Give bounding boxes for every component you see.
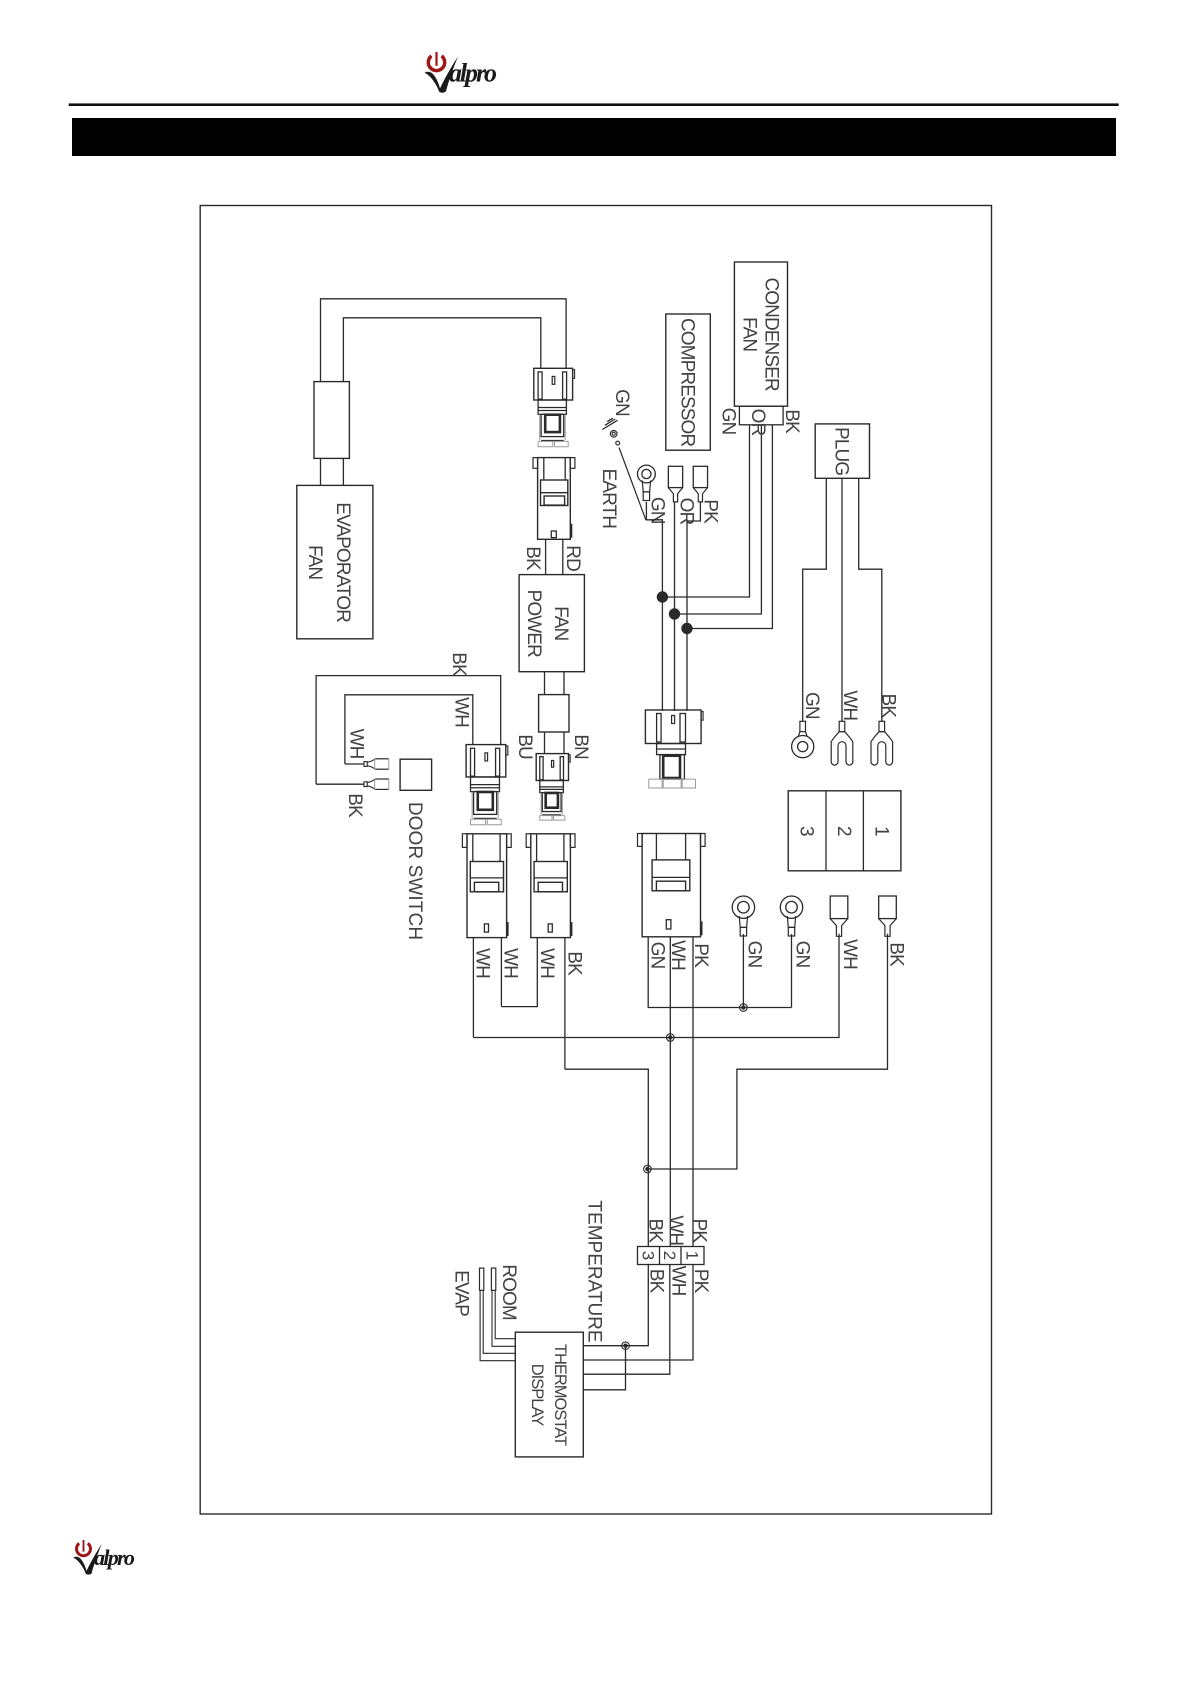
label PK (X4) [690,943,711,968]
label WH (door spade) [345,729,366,759]
label GN (compressor) [647,497,668,524]
condenser fan flange [739,406,783,425]
evaporator fan box [297,485,373,638]
label BK (X2) [564,951,585,976]
svg-text:1: 1 [683,1251,702,1260]
wire fan power out [545,672,565,695]
label RD (fan power in) [562,545,583,571]
svg-text:PK: PK [689,1219,710,1244]
svg-text:EVAP: EVAP [450,1270,471,1316]
connector X4 receptacle 3pin [638,834,706,937]
wire X3 WH right (U-link) [500,938,502,1007]
wire BU [544,732,546,754]
label GN (ring a) [743,941,764,968]
svg-text:BK: BK [448,652,469,677]
label BK (spade a) [886,942,907,967]
terminal block 123 [788,791,901,871]
svg-text:GN: GN [743,941,764,968]
label GN (ring b) [791,941,812,968]
wire BK to condenser [687,425,772,629]
label EVAP [450,1270,471,1316]
terminal BK spade (door switch) [364,779,389,789]
wire EVAP pair [480,1290,515,1360]
terminal ring GN-a [732,896,754,936]
fan power box [519,575,584,672]
wire X4 WH pin [669,937,671,1247]
svg-text:EARTH: EARTH [598,469,619,529]
svg-text:WH: WH [450,697,471,727]
terminal spade PK (compressor) [693,466,707,502]
terminal strip 321 [638,1247,705,1265]
node GN junction [657,592,667,602]
svg-text:WH: WH [665,1215,686,1245]
label WH (door loop) [450,697,471,727]
svg-text:WH: WH [500,948,521,978]
logo Valpro top [425,51,498,92]
terminal spade BK-a [879,896,897,936]
label BK (strip bottom) [645,1269,666,1294]
terminal ring GN (plug) [792,721,814,757]
svg-text:3: 3 [639,1251,658,1260]
svg-text:DOOR SWITCH: DOOR SWITCH [404,802,425,940]
wire ROOM pair [492,1290,515,1346]
label BU [514,734,535,759]
wire BN [563,732,565,754]
svg-text:WH: WH [536,948,557,978]
label WH (X3 right) [500,948,521,978]
compressor box [666,314,711,450]
node WH junction [667,1034,675,1042]
svg-text:OR: OR [747,409,768,436]
terminal fork BK (plug) [871,721,893,765]
svg-text:EVAPORATORFAN: EVAPORATORFAN [304,502,353,622]
wire compressor GN [646,502,662,711]
door switch box [400,759,432,790]
label GN (X4) [646,942,667,969]
sensor probe ROOM [491,1268,495,1290]
diagram frame [200,206,991,1515]
svg-text:BK: BK [877,694,898,719]
connector X3 plug (door circuit) [466,745,508,825]
label BK (door loop) [448,652,469,677]
svg-text:2: 2 [660,1251,679,1260]
wire GN to condenser [662,425,749,597]
wire OR to condenser [675,425,762,614]
wire X2 BK pin [564,938,566,1070]
svg-text:GN: GN [611,389,632,416]
wire X2 WH pin [501,938,537,1007]
condenser fan box [734,262,787,406]
svg-text:CONDENSERFAN: CONDENSERFAN [738,277,781,390]
cable sleeve fan power [539,695,569,732]
wire spade BK-a down [647,934,887,1169]
label OR (condenser) [747,409,768,436]
label WH (X2) [536,948,557,978]
node OR junction [669,609,679,619]
label WH (X3 left) [472,948,493,978]
label WH (strip top) [665,1215,686,1245]
plug box [815,424,869,478]
svg-text:3: 3 [795,826,816,836]
label PK (compressor) [699,499,720,524]
connector X4 plug 3pin [645,710,703,788]
label GN (earth) [611,389,632,416]
svg-text:COMPRESSOR: COMPRESSOR [676,318,697,446]
wire compressor PK [687,502,700,711]
connector X1 plug (evap fan) [534,368,575,446]
wire door switch WH loop [345,695,473,764]
node GN ring junction [740,1004,748,1012]
label GN (plug) [801,692,822,719]
wire plug BK [859,478,882,721]
label 3 (strip) [639,1251,658,1260]
label DOOR SWITCH [404,802,425,940]
wire door switch BK loop [316,676,501,785]
svg-text:BK: BK [344,793,365,818]
wire X3 WH left [472,938,474,1038]
thermostat display box [515,1332,583,1457]
label BN [570,734,591,759]
connector X3 receptacle [462,834,511,938]
svg-text:ROOM: ROOM [498,1264,519,1320]
svg-text:BK: BK [564,951,585,976]
label PK (strip bottom) [690,1269,711,1294]
wire strip2 to thermostat [583,1265,670,1375]
label WH (X4) [667,940,688,970]
terminal spade OR (compressor) [668,466,682,502]
terminal WH spade (door switch) [364,759,389,769]
svg-text:2: 2 [833,826,854,836]
svg-text:WH: WH [345,729,366,759]
wire to WH spade [345,763,364,765]
svg-text:WH: WH [839,939,860,969]
label 1 [871,826,892,836]
svg-text:alpro: alpro [449,59,497,88]
wire plug GN [803,478,827,721]
svg-text:WH: WH [839,690,860,720]
wire evaporator outer (BK) [321,299,567,382]
svg-text:alpro: alpro [94,1545,135,1570]
wire earth to GN [619,448,646,520]
terminal spade WH-a [830,896,848,936]
node BK junction [644,1165,652,1173]
wire spade WH-a down [473,934,839,1038]
label GN (condenser) [717,408,738,435]
wire strip3 to thermostat [583,1265,648,1346]
label WH (plug) [839,690,860,720]
ground symbol (earth) [602,418,619,445]
svg-text:GN: GN [717,408,738,435]
svg-text:BK: BK [644,1219,665,1244]
svg-text:BK: BK [781,409,802,434]
connector X1 receptacle [533,458,575,540]
svg-text:THERMOSTATDISPLAY: THERMOSTATDISPLAY [528,1344,569,1446]
wire X1 RD pin [562,539,564,574]
label 1 (strip) [683,1251,702,1260]
svg-text:WH: WH [668,1266,689,1296]
wire to BK spade [316,783,364,785]
cable sleeve evaporator [314,382,349,459]
wire X1 BK pin [545,539,547,574]
label ROOM [498,1264,519,1320]
svg-text:WH: WH [667,940,688,970]
svg-text:RD: RD [562,545,583,571]
svg-text:FANPOWER: FANPOWER [523,590,571,657]
wire ring GN-b down [791,934,793,1008]
wire thermostat 4th [583,1346,625,1390]
sensor probe EVAP [480,1268,484,1290]
wire X2 BK link [565,1069,648,1246]
node thermostat junction [622,1342,630,1350]
wire compressor OR [674,502,676,711]
connector X2 plug (fan power) [536,754,570,821]
label 2 (strip) [660,1251,679,1260]
terminal fork WH (plug) [831,721,853,765]
wire evap sleeve to fan [321,458,344,485]
header rule [69,103,1119,106]
label OR (compressor) [675,498,696,525]
svg-text:GN: GN [791,941,812,968]
label BK (plug) [877,694,898,719]
svg-text:1: 1 [871,826,892,836]
label TEMPERATURE [584,1200,605,1342]
label EARTH [598,469,619,529]
label WH (strip bottom) [668,1266,689,1296]
label WH (spade a) [839,939,860,969]
svg-text:GN: GN [801,692,822,719]
svg-text:PLUG: PLUG [831,427,852,475]
connector X2 receptacle [526,834,575,938]
node PK junction [682,623,692,633]
svg-text:TEMPERATURE: TEMPERATURE [584,1200,605,1342]
terminal ring GN (compressor) [638,465,656,500]
wire plug WH [841,478,843,721]
svg-text:BK: BK [886,942,907,967]
label BK (door spade) [344,793,365,818]
label 3 [795,826,816,836]
wire ring GN-a down [742,934,744,1008]
wire evaporator inner (RD) [343,318,540,382]
logo Valpro bottom [73,1539,135,1574]
label PK (strip top) [689,1219,710,1244]
svg-text:GN: GN [646,942,667,969]
svg-text:WH: WH [472,948,493,978]
terminal ring GN-b [780,896,802,936]
title banner bar [72,118,1116,156]
svg-text:PK: PK [690,943,711,968]
label BK (condenser) [781,409,802,434]
svg-text:PK: PK [699,499,720,524]
wire strip1 to thermostat [583,1265,693,1361]
label 2 [833,826,854,836]
wire X4 PK pin [692,937,694,1247]
svg-text:BK: BK [522,546,543,571]
label BK (strip top) [644,1219,665,1244]
wire X4 GN pin [648,937,791,1008]
svg-text:BN: BN [570,734,591,759]
label BK (fan power in) [522,546,543,571]
svg-text:BU: BU [514,734,535,759]
